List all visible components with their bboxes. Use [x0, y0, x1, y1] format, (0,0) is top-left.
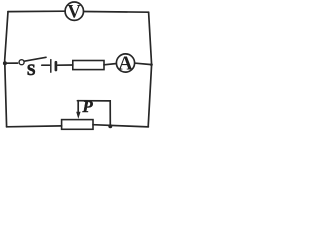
rheostat arrowhead — [76, 112, 80, 119]
switch S blade — [24, 57, 46, 61]
rheostat slider arrow shaft — [77, 101, 79, 113]
wire switch to battery — [42, 64, 50, 66]
wire resistor to ammeter — [104, 64, 116, 65]
battery short plate — [55, 62, 58, 70]
resistor box — [73, 61, 104, 70]
ammeter A — [116, 54, 134, 72]
wire top-right segment — [84, 11, 148, 14]
wire left vertical — [5, 12, 8, 127]
wire battery to resistor — [58, 64, 73, 66]
svg-text:A: A — [118, 53, 133, 75]
rheostat box P — [62, 120, 93, 130]
wire bottom-left segment — [7, 125, 62, 128]
svg-text:P: P — [81, 97, 93, 116]
battery long plate — [50, 60, 52, 73]
svg-text:V: V — [68, 3, 82, 23]
wire right vertical — [148, 12, 151, 126]
rheostat slider loop wire — [77, 101, 110, 127]
svg-text:S: S — [27, 62, 36, 79]
node dot right middle junction — [150, 63, 153, 66]
wire top-left segment — [8, 10, 64, 12]
switch S pivot — [19, 60, 24, 65]
wire middle-left from node to switch — [5, 62, 18, 64]
wire ammeter to right vertical — [136, 63, 152, 64]
node dot rheostat loop to bottom wire — [108, 124, 112, 128]
wire bottom-right segment — [93, 125, 148, 127]
node dot left middle junction — [3, 61, 7, 65]
voltmeter V — [65, 2, 83, 20]
